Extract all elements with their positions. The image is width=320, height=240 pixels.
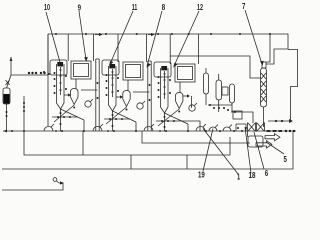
unit3 reactor R3 bbox=[161, 68, 169, 113]
bottom-right pump cluster bbox=[205, 124, 247, 132]
leader 7 bbox=[245, 10, 262, 64]
unit2 condenser double box bbox=[123, 62, 143, 80]
leader 9 bbox=[79, 11, 86, 60]
stripper capsule B bbox=[216, 80, 222, 100]
unit1 nozzle dots row bbox=[43, 71, 50, 75]
unit1 pipe box to pear bbox=[75, 79, 77, 89]
unit2 reactor R2 bbox=[109, 66, 117, 111]
unit1 bottom piping X bbox=[54, 105, 84, 122]
small pot bbox=[233, 111, 242, 119]
valve V1 (bowtie) bbox=[248, 123, 256, 132]
svg-text:19: 19 bbox=[198, 170, 205, 179]
unit2 feed arrow to pear bbox=[116, 96, 120, 98]
leader 8 bbox=[147, 11, 162, 66]
unit1 reactor R1 bbox=[57, 64, 65, 109]
bottom export line y190 bbox=[2, 183, 63, 190]
unit1 head box bbox=[50, 60, 67, 75]
box routing under unit3 bbox=[142, 131, 250, 143]
header flow arrow bbox=[95, 34, 99, 36]
unit3 feed arrow to pear bbox=[183, 95, 187, 97]
stripper capsule C bbox=[230, 84, 235, 103]
unit1 transfer pump bbox=[85, 101, 91, 107]
vapor line with arrow y121 bbox=[268, 120, 289, 122]
svg-text:6: 6 bbox=[265, 169, 269, 178]
unit2 pipe box to pear bbox=[127, 80, 129, 91]
feed valve X bbox=[6, 80, 10, 85]
unit3 pipe box to pear bbox=[179, 82, 181, 93]
unit2 tall box sides bbox=[118, 34, 147, 62]
header junction dots bbox=[11, 130, 189, 132]
unit2 bottom piping X bbox=[106, 107, 136, 124]
svg-text:10: 10 bbox=[44, 3, 50, 12]
unit3 drain bbox=[182, 121, 200, 131]
hollow arrow 1 bbox=[265, 134, 280, 141]
unit3 crystallizer (pear vessel) bbox=[176, 93, 183, 109]
unit1 crystallizer (pear vessel) bbox=[71, 89, 79, 105]
column 7 right side connector bbox=[288, 50, 298, 122]
header flow arrow bbox=[148, 34, 151, 36]
unit3 tall box sides bbox=[170, 34, 198, 64]
valve V2 (bowtie) bbox=[257, 123, 265, 132]
leader 1 bbox=[203, 129, 238, 175]
unit2 crystallizer (pear vessel) bbox=[123, 91, 130, 107]
top header pipe y34 bbox=[48, 34, 288, 64]
unit3 transfer pump bbox=[189, 105, 195, 111]
svg-text:8: 8 bbox=[162, 3, 166, 12]
leader 5 bbox=[266, 142, 284, 154]
small arrow at 63,183 bbox=[59, 182, 63, 184]
stripper capsule A bbox=[204, 73, 209, 94]
unit1 tall box sides bbox=[68, 34, 93, 61]
unit1 condenser double box bbox=[71, 61, 91, 79]
line y169 full width bbox=[2, 131, 293, 169]
column 7 bbox=[261, 50, 298, 128]
drop to column 7 head bbox=[267, 34, 271, 62]
vessel outlet down bbox=[6, 104, 8, 131]
leader 18 bbox=[245, 127, 251, 173]
valve dots on feed line bbox=[28, 72, 46, 74]
svg-text:11: 11 bbox=[132, 3, 138, 12]
svg-text:12: 12 bbox=[197, 3, 203, 12]
leader 6 bbox=[254, 132, 264, 169]
svg-text:7: 7 bbox=[242, 2, 246, 11]
leader 12 bbox=[174, 11, 199, 66]
column 7 bottoms bbox=[263, 107, 265, 127]
unit3 bottom piping X bbox=[158, 109, 188, 126]
hollow arrow 2 bbox=[256, 141, 272, 148]
unit3 head box bbox=[154, 62, 171, 77]
leader 10 bbox=[46, 12, 61, 66]
leader 11 bbox=[110, 11, 133, 64]
leader 19 bbox=[203, 129, 213, 172]
unit2 head box bbox=[102, 60, 119, 75]
small pump circle at export bbox=[53, 178, 57, 182]
feed line y75 bbox=[11, 34, 48, 75]
unit2 transfer pump bbox=[137, 103, 143, 109]
unit3 condenser double box bbox=[175, 64, 195, 82]
discharge dots and end bbox=[285, 130, 295, 132]
unit2 overflow line bbox=[133, 91, 150, 93]
discharge dashes bbox=[267, 130, 283, 132]
svg-text:5: 5 bbox=[284, 155, 288, 164]
unit boundary verticals bbox=[48, 34, 151, 131]
header segment to column 7 bbox=[170, 56, 260, 78]
svg-text:9: 9 bbox=[78, 4, 82, 13]
unit1 overflow line bbox=[81, 89, 98, 91]
valve stack x24 bbox=[23, 96, 25, 131]
feed vessel (dark bottom) bbox=[3, 88, 10, 104]
unit1 feed arrow to pear bbox=[64, 94, 68, 96]
piping below capsules bbox=[208, 105, 253, 123]
line y155 bbox=[24, 131, 230, 155]
svg-text:18: 18 bbox=[249, 171, 256, 180]
junction dots on top header bbox=[55, 33, 241, 35]
main bottom header y131 bbox=[3, 130, 296, 132]
small fitting bbox=[222, 87, 228, 95]
drop to y155 bbox=[82, 131, 84, 155]
drum under valves bbox=[248, 136, 263, 147]
pumps on header bbox=[44, 124, 206, 131]
feed arrow top-left bbox=[10, 57, 12, 75]
